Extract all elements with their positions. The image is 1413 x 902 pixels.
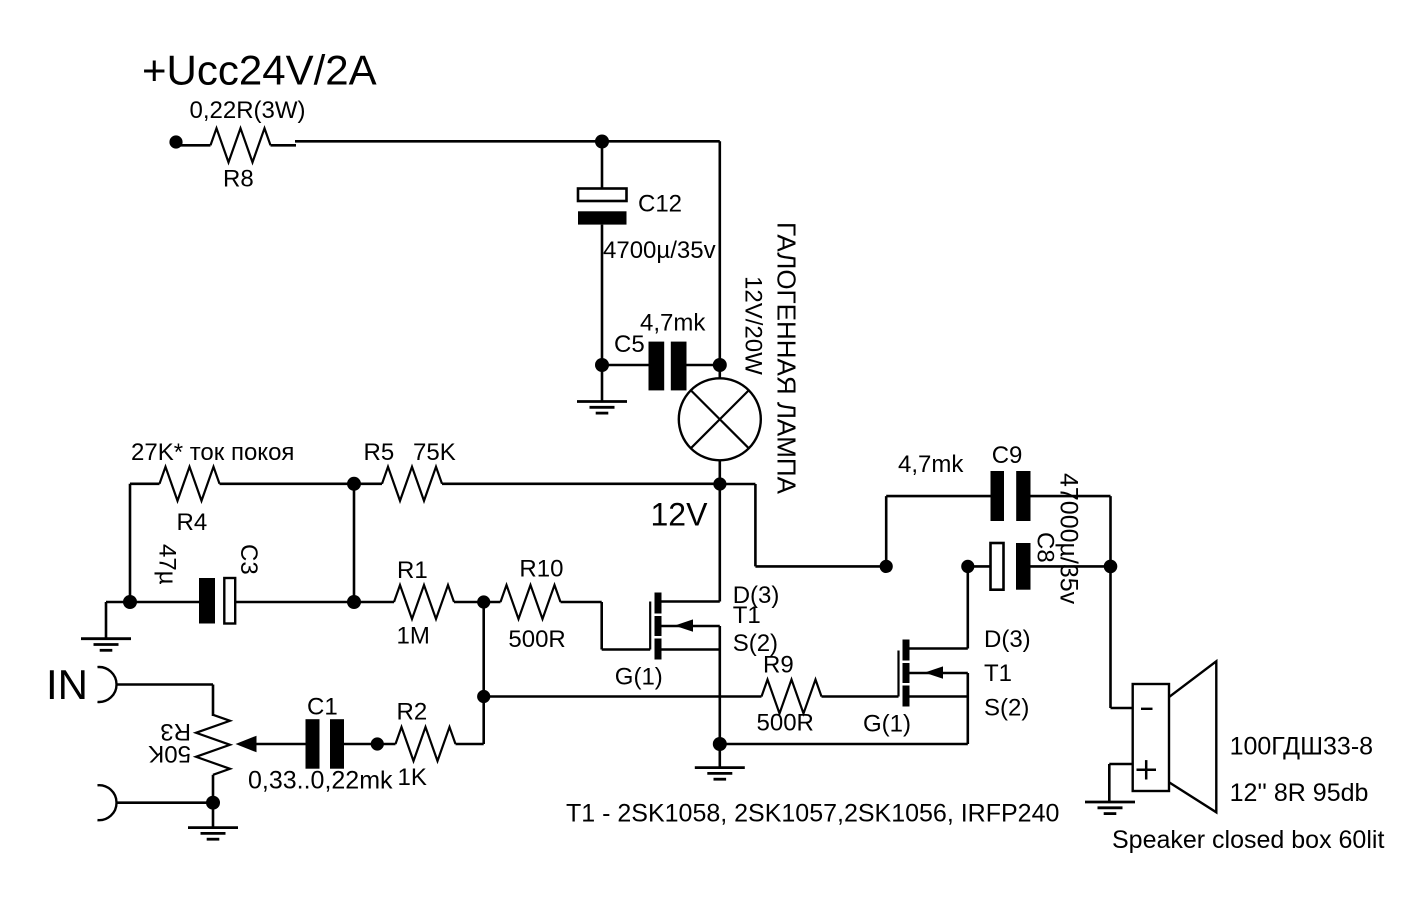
svg-text:47µ: 47µ [154, 544, 181, 585]
wiper arrow of R3 [240, 743, 306, 746]
wire T1 drain to 12V [662, 600, 720, 603]
transistor T1 first MOSFET [649, 602, 651, 650]
svg-text:75K: 75K [413, 439, 456, 466]
wire C5 right lead [687, 364, 720, 367]
ground below R3 [212, 803, 215, 828]
potentiometer R3 50K [196, 715, 230, 775]
svg-text:+Ucc24V/2A: +Ucc24V/2A [142, 47, 377, 94]
ground below C5 [601, 365, 604, 402]
wire junction to R1 [354, 601, 394, 604]
junction node top rail / C12 [595, 135, 609, 149]
wire junction down to C3 rail [353, 484, 356, 602]
junction node R3 bottom [206, 796, 220, 810]
svg-text:R10: R10 [519, 556, 563, 583]
input jack top contact [97, 667, 116, 702]
capacitor C3 47u [199, 578, 215, 624]
wire C8 right lead [1031, 565, 1111, 568]
junction node C5 left [595, 358, 609, 372]
wire output to speaker minus [1109, 566, 1112, 708]
svg-text:R1: R1 [397, 557, 428, 584]
svg-text:D(3): D(3) [984, 626, 1031, 653]
wire 12V node to output rail [720, 483, 756, 486]
wire R10 to gate jog [561, 601, 602, 604]
wire R5 to 12V node [442, 482, 720, 485]
resistor R8 0,22R(3W) [177, 144, 211, 147]
svg-text:1M: 1M [397, 623, 430, 650]
svg-text:27K* ток покоя: 27K* ток покоя [131, 439, 294, 466]
speaker plus sign [1137, 769, 1157, 772]
svg-text:50K: 50K [148, 740, 191, 767]
capacitor C5 4,7mk [649, 342, 665, 391]
wire C9 right branch [1031, 495, 1111, 498]
svg-text:T1: T1 [984, 660, 1012, 687]
halogen lamp 12V/20W [679, 378, 761, 460]
svg-text:ГАЛОГЕННАЯ ЛАМПА: ГАЛОГЕННАЯ ЛАМПА [772, 222, 802, 495]
junction node R1/R10 [477, 595, 490, 608]
svg-text:R5: R5 [364, 439, 395, 466]
junction node C3/R1 [347, 595, 361, 609]
svg-text:S(2): S(2) [984, 695, 1029, 722]
wire C1 to R2 [344, 743, 396, 746]
wire R2 to feedback node [456, 743, 484, 746]
junction node C3 left [123, 595, 137, 609]
svg-text:Speaker closed box 60lit: Speaker closed box 60lit [1112, 826, 1384, 854]
svg-text:C12: C12 [638, 191, 682, 218]
svg-text:0,33..0,22mk: 0,33..0,22mk [248, 767, 393, 795]
wire top-right corner down to lamp [718, 141, 721, 365]
junction node gate rail [477, 690, 490, 703]
junction node R4/R5 [347, 477, 361, 491]
wire R4 left corner [130, 482, 160, 485]
capacitor C12 4700u/35v [578, 189, 627, 202]
wire R1 to R10 [454, 601, 501, 604]
wire top rail to C12 junction [295, 140, 720, 143]
wire C9 left branch [885, 496, 888, 566]
wire T2 source [910, 695, 968, 698]
resistor R2 1K [396, 727, 456, 761]
svg-text:C9: C9 [992, 442, 1023, 469]
input jack bottom contact [97, 785, 116, 820]
svg-text:T1 - 2SK1058, 2SK1057,2SK1056,: T1 - 2SK1058, 2SK1057,2SK1056, IRFP240 [566, 799, 1059, 827]
junction node C5 right / lamp top [713, 358, 727, 372]
junction node output [1104, 560, 1118, 574]
svg-text:500R: 500R [508, 626, 565, 653]
wire gate rail to R9 [484, 695, 762, 698]
junction node C9 left [880, 560, 893, 573]
wire C8 left lead [968, 565, 991, 568]
svg-text:12V/20W: 12V/20W [740, 276, 767, 375]
speaker minus sign [1141, 708, 1153, 710]
wire T1 source down to ground [718, 626, 721, 744]
resistor R1 1M [394, 585, 454, 619]
wire T1 substrate with arrow [662, 625, 720, 628]
svg-text:G(1): G(1) [863, 711, 911, 738]
svg-text:12'' 8R 95db: 12'' 8R 95db [1230, 779, 1369, 807]
svg-text:1K: 1K [398, 764, 427, 791]
capacitor C8 47000u/35v [991, 543, 1004, 590]
svg-text:12V: 12V [651, 497, 709, 533]
wire C3 left lead [130, 601, 199, 604]
svg-text:R2: R2 [397, 699, 428, 726]
transistor T1 second MOSFET [897, 651, 899, 697]
terminal node +Ucc [169, 135, 182, 148]
wire C12 bottom lead [601, 225, 604, 365]
svg-text:R8: R8 [223, 166, 254, 193]
ground below T1 source [718, 744, 721, 768]
svg-text:R4: R4 [177, 509, 208, 536]
capacitor C9 4,7mk [991, 471, 1005, 521]
junction node C1/R2 [371, 737, 384, 750]
svg-text:47000µ/35v: 47000µ/35v [1055, 473, 1083, 605]
speaker box [1133, 684, 1169, 791]
svg-text:500R: 500R [757, 710, 814, 737]
svg-text:IN: IN [46, 661, 88, 708]
speaker horn [1169, 661, 1216, 812]
wire ground stub left of C3 [106, 601, 130, 604]
wire R9 to T2 gate [822, 695, 899, 698]
svg-text:100ГДШ33-8: 100ГДШ33-8 [1230, 733, 1373, 761]
svg-text:0,22R(3W): 0,22R(3W) [190, 97, 306, 124]
svg-text:4,7mk: 4,7mk [640, 309, 706, 336]
resistor R9 500R [762, 680, 822, 714]
resistor R10 500R [501, 585, 561, 619]
svg-text:4,7mk: 4,7mk [898, 451, 964, 478]
wire T2 source down to ground rail [966, 673, 969, 744]
wire T1 source [662, 648, 720, 651]
wire jack to R3 top [117, 683, 214, 686]
svg-text:4700µ/35v: 4700µ/35v [603, 237, 716, 264]
wire R3 bottom [212, 775, 215, 803]
resistor R4 27K* tok pokoya [160, 467, 220, 501]
svg-text:C5: C5 [614, 331, 645, 358]
node 12V junction at lamp bottom [713, 477, 726, 490]
wire C5 left lead [602, 364, 649, 367]
ground below input rail [81, 637, 131, 640]
wire bottom jack to R3 ground [117, 801, 214, 804]
wire C12 top lead [601, 142, 604, 189]
wire vertical feedback node [482, 602, 485, 744]
svg-text:C3: C3 [235, 544, 262, 575]
wire T2 drain to C8 node [910, 647, 968, 650]
junction node C8 left / T2 drain [961, 560, 974, 573]
wire T2 substrate with arrow [910, 672, 968, 675]
svg-text:C8: C8 [1032, 532, 1059, 563]
capacitor C1 0,33..0,22mk [306, 719, 320, 769]
svg-text:R9: R9 [763, 651, 794, 678]
wire R4 to R5 [220, 482, 383, 485]
junction node source/ground [713, 737, 727, 751]
resistor R5 75K [382, 467, 442, 501]
wire speaker plus to ground [1109, 763, 1132, 766]
ground below speaker [1085, 801, 1135, 804]
svg-text:T1: T1 [733, 602, 761, 629]
svg-text:C1: C1 [307, 693, 338, 720]
svg-text:G(1): G(1) [615, 664, 663, 691]
wire C3 right lead [235, 601, 354, 604]
